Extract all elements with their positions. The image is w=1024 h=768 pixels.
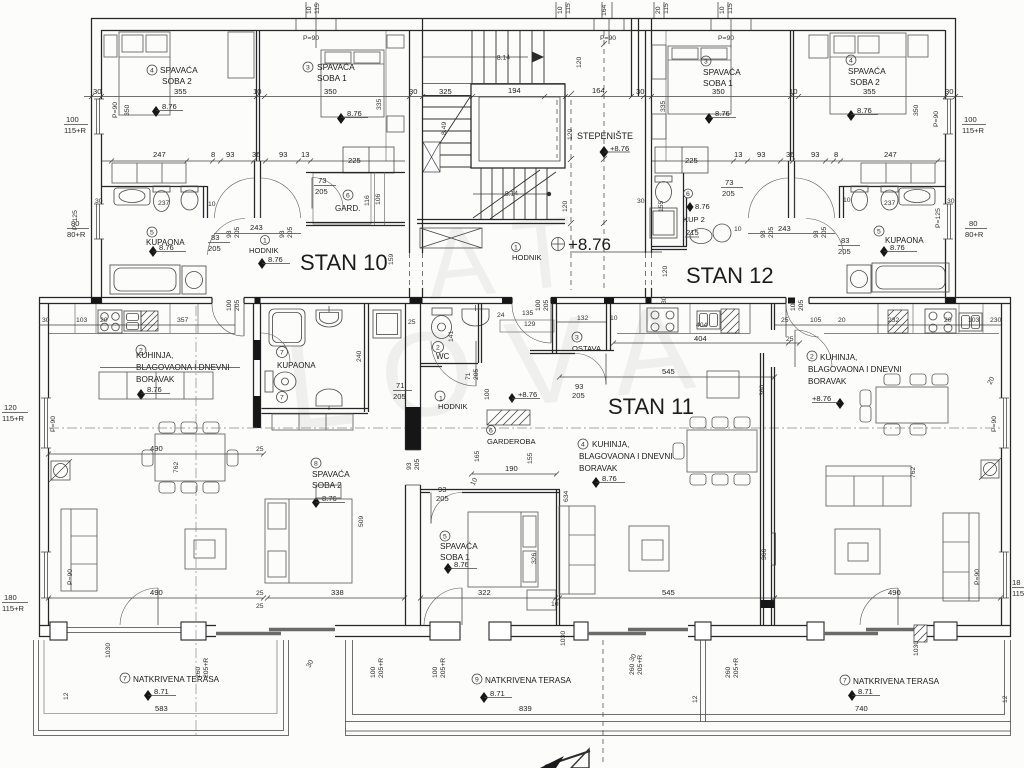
bathtub stan10 <box>110 265 180 294</box>
svg-text:100: 100 <box>790 299 797 311</box>
svg-text:10: 10 <box>253 87 261 96</box>
wall soba1 north <box>421 490 560 493</box>
svg-text:230: 230 <box>990 317 1002 324</box>
svg-text:STAN 12: STAN 12 <box>686 263 774 288</box>
svg-text:36: 36 <box>786 150 794 159</box>
soba1 label circle5 <box>440 531 450 541</box>
svg-text:8.76: 8.76 <box>695 202 710 211</box>
room label circle7 <box>277 347 288 358</box>
svg-text:4: 4 <box>849 58 853 65</box>
kitchen counter right <box>824 304 999 334</box>
svg-text:115: 115 <box>314 3 321 14</box>
level line left <box>148 695 176 697</box>
dim line 490 lower <box>46 596 266 601</box>
hatched pier right <box>914 625 927 642</box>
dim line 190 <box>469 472 559 477</box>
svg-text:83: 83 <box>841 236 849 245</box>
sofa s11 <box>559 506 595 594</box>
sink stan11 <box>697 311 720 329</box>
svg-text:STEPENIŠTE: STEPENIŠTE <box>577 131 633 141</box>
svg-text:P=125: P=125 <box>935 208 942 228</box>
svg-text:13: 13 <box>734 150 742 159</box>
door stan10-lower arc <box>212 304 244 336</box>
coffee table right <box>835 529 880 574</box>
svg-text:205: 205 <box>315 187 328 196</box>
sofa horizontal right <box>826 466 911 506</box>
svg-text:404: 404 <box>696 322 708 329</box>
svg-text:8.76: 8.76 <box>890 243 905 252</box>
wall left (outer line) <box>91 18 93 304</box>
glazing gray stan11 leaf2 <box>628 628 688 631</box>
svg-text:20: 20 <box>100 317 108 324</box>
dim stack x658 <box>655 3 670 14</box>
svg-text:P=90: P=90 <box>112 102 119 118</box>
svg-text:8.14: 8.14 <box>497 54 511 62</box>
glazing gray right apt leaf2 <box>866 628 914 631</box>
svg-text:P=90: P=90 <box>718 35 734 42</box>
svg-text:SOBA 1: SOBA 1 <box>317 73 347 83</box>
terrace divider <box>701 640 706 722</box>
svg-text:205+R: 205+R <box>440 658 447 678</box>
bidet kup2 <box>690 229 712 244</box>
svg-text:1030: 1030 <box>560 631 567 646</box>
svg-text:243: 243 <box>778 224 791 233</box>
svg-text:P=90: P=90 <box>600 35 616 42</box>
window left-2 <box>41 552 51 598</box>
elevator outer box <box>471 84 565 168</box>
soba1 door arc <box>431 493 462 524</box>
hatch connect east walls <box>761 600 774 608</box>
svg-text:10: 10 <box>719 6 726 14</box>
svg-text:225: 225 <box>685 156 698 165</box>
svg-text:100: 100 <box>370 666 377 678</box>
level marker kupaona12 <box>880 246 888 257</box>
level marker s11 <box>592 477 600 488</box>
svg-text:205: 205 <box>798 299 805 311</box>
level marker terrace left <box>144 690 152 701</box>
wardrobe soba2 right <box>228 32 254 78</box>
svg-text:205: 205 <box>287 226 294 238</box>
svg-text:P=90: P=90 <box>50 416 57 432</box>
svg-text:20: 20 <box>838 317 846 324</box>
level marker soba1 s11 <box>444 563 452 574</box>
svg-text:SPAVAĆA: SPAVAĆA <box>848 66 886 76</box>
svg-text:115+R: 115+R <box>2 414 25 423</box>
window label 180/115+R left <box>2 593 28 613</box>
svg-text:A T: A T <box>421 195 580 322</box>
svg-text:30: 30 <box>636 87 644 96</box>
svg-text:10: 10 <box>843 197 851 204</box>
wall between soba2 soba1 stan10 <box>257 31 260 161</box>
svg-text:1030: 1030 <box>913 641 920 656</box>
stove right <box>925 309 956 333</box>
svg-text:116: 116 <box>364 195 371 206</box>
wall stairwell west <box>410 18 423 298</box>
svg-text:232: 232 <box>888 317 900 324</box>
svg-text:6: 6 <box>346 193 350 200</box>
svg-text:8.76: 8.76 <box>322 494 337 503</box>
sideboard s11 <box>707 371 739 398</box>
level line right <box>812 402 840 404</box>
svg-text:8.76: 8.76 <box>147 385 162 394</box>
door stan12-lower arc <box>786 304 819 337</box>
svg-text:106: 106 <box>375 193 382 205</box>
rot dims 260/205+R mid-right <box>629 655 644 675</box>
wc washbasin <box>462 305 489 326</box>
wall kupaona7 south <box>262 409 369 414</box>
wall kupaona7 west <box>254 304 261 428</box>
svg-text:115: 115 <box>1012 589 1024 598</box>
svg-text:+8.76: +8.76 <box>568 235 611 254</box>
wall right (inner line) <box>945 30 947 304</box>
window mark top soba1 stan10 <box>296 18 336 48</box>
door right apt arc <box>795 330 832 367</box>
svg-text:P=90: P=90 <box>974 569 981 585</box>
svg-text:SPAVAĆA: SPAVAĆA <box>703 67 741 77</box>
wall black stub <box>406 407 421 450</box>
garderoba closet hatch <box>487 410 530 425</box>
gard door leaf <box>311 178 313 209</box>
section dash-dot line across lower block <box>49 427 1001 429</box>
svg-text:BORAVAK: BORAVAK <box>808 377 847 386</box>
svg-text:490: 490 <box>888 588 901 597</box>
bottom wall lines <box>39 626 1011 637</box>
left flight steps <box>423 96 471 168</box>
svg-text:5: 5 <box>443 534 447 541</box>
svg-text:583: 583 <box>155 704 168 713</box>
svg-text:93: 93 <box>226 230 233 238</box>
kupaona door arc <box>208 219 246 256</box>
armoire soba1 s11 <box>527 590 556 610</box>
pier boxes soba1 right <box>387 35 404 48</box>
svg-text:P=90: P=90 <box>933 111 940 127</box>
svg-text:509: 509 <box>358 515 365 527</box>
svg-text:HODNIK: HODNIK <box>249 246 279 255</box>
washbasin kupaona7 top <box>316 306 342 327</box>
level marker right <box>836 398 844 409</box>
wall stan11 east A <box>761 353 764 625</box>
door dims 73/205 stan12 <box>721 178 743 198</box>
glazing gray left apt leaf2 <box>269 628 335 631</box>
wall stairwell east short <box>632 18 639 96</box>
gard circle6 <box>343 190 353 200</box>
wc door arc <box>431 341 476 386</box>
chairs bottom right <box>884 424 926 435</box>
gard south wall <box>306 223 405 226</box>
lower flight walk line <box>473 193 547 195</box>
svg-text:6: 6 <box>686 191 690 198</box>
svg-text:247: 247 <box>884 150 897 159</box>
svg-text:93: 93 <box>438 485 446 494</box>
fixtures kupaona12: toilet <box>851 186 868 211</box>
basin kup2 <box>713 224 731 242</box>
dim line 490 upper <box>46 452 266 457</box>
counter dividers s11 <box>640 304 690 333</box>
bidet kupaona12 <box>881 186 898 210</box>
door arc hodnik-right stan12 <box>795 178 835 218</box>
door dash stairwell west <box>410 253 423 288</box>
svg-text:155: 155 <box>658 200 665 212</box>
shower kupaona7 <box>269 309 305 346</box>
svg-text:1: 1 <box>263 238 267 245</box>
left terrace label circle7 <box>120 673 130 683</box>
room label soba1: circle3 <box>303 62 313 72</box>
level line soba2 <box>156 110 183 112</box>
svg-text:SPAVAĆA: SPAVAĆA <box>160 65 198 75</box>
wall right (outer line) <box>955 18 957 304</box>
window left lower <box>94 204 104 239</box>
mid terrace label circle9 <box>472 674 482 684</box>
dim stack x722 <box>719 3 734 14</box>
svg-text:100: 100 <box>432 666 439 678</box>
thin wardrobe line soba1 <box>385 31 387 161</box>
kupaona12 circle5 <box>874 226 884 236</box>
rot dims 100/205+R pair A <box>370 658 385 678</box>
svg-text:115+R: 115+R <box>64 126 87 135</box>
wall kupaona east <box>204 186 208 218</box>
level marker stepeniste <box>600 146 609 158</box>
shaft hatch box <box>423 142 440 172</box>
window label 80/80+R right <box>965 219 987 239</box>
elevator inner box <box>479 97 560 161</box>
wall ostava south <box>530 351 614 354</box>
svg-text:NATKRIVENA TERASA: NATKRIVENA TERASA <box>133 675 220 684</box>
svg-text:10: 10 <box>208 201 216 208</box>
wall hall east upper <box>479 304 482 363</box>
svg-text:BLAGOVAONA I DNEVNI: BLAGOVAONA I DNEVNI <box>808 365 902 374</box>
window mark top corridor <box>594 18 624 44</box>
svg-text:190: 190 <box>505 464 518 473</box>
chairs bottom <box>159 482 219 493</box>
svg-text:93: 93 <box>813 230 820 238</box>
svg-text:3: 3 <box>704 59 708 66</box>
wall lower-left outer <box>39 297 41 637</box>
door arc kupaona12 <box>806 219 844 256</box>
big terrace outer lines <box>346 722 1011 736</box>
gard door arc <box>312 178 343 209</box>
svg-text:10: 10 <box>789 87 797 96</box>
terrace door left apt arc <box>120 588 158 625</box>
svg-text:205: 205 <box>208 244 221 253</box>
svg-text:P=125: P=125 <box>72 210 79 230</box>
svg-text:335: 335 <box>660 100 667 112</box>
upper flight arrowhead <box>532 52 544 63</box>
svg-text:180: 180 <box>4 593 17 602</box>
rot dims 93/205 west door <box>406 458 421 470</box>
ostava door dims <box>572 382 585 400</box>
svg-text:93: 93 <box>279 230 286 238</box>
room label soba2: circle4 <box>147 65 157 75</box>
rot dims 93/205 right door <box>813 226 828 238</box>
washing machine stan10 <box>182 266 206 294</box>
pier box 2 <box>387 116 404 132</box>
room label circle2 <box>136 345 146 355</box>
window left-1 <box>41 398 51 448</box>
door arc hodnik-left stan12 <box>749 178 789 218</box>
svg-text:80+R: 80+R <box>67 230 86 239</box>
north arrow <box>540 749 590 768</box>
dim line 545 lower <box>557 596 777 601</box>
svg-text:93: 93 <box>226 150 234 159</box>
bed soba1 <box>321 50 384 117</box>
wall ostava west <box>553 304 557 353</box>
svg-text:120: 120 <box>576 56 583 68</box>
kitchen dim line <box>39 324 235 326</box>
level marker terrace mid <box>480 692 488 703</box>
svg-text:205: 205 <box>722 189 735 198</box>
svg-text:355: 355 <box>863 87 876 96</box>
svg-text:KUP 2: KUP 2 <box>683 215 705 224</box>
svg-text:9: 9 <box>475 677 479 684</box>
watermark faint <box>279 195 700 456</box>
bidet kupaona <box>181 186 198 210</box>
kitchen counter <box>49 304 235 334</box>
wall lower-right inner <box>1001 304 1003 625</box>
svg-text:P=90: P=90 <box>67 569 74 585</box>
svg-text:8.14: 8.14 <box>505 190 519 198</box>
svg-text:12: 12 <box>692 695 699 703</box>
svg-text:350: 350 <box>124 104 131 116</box>
level marker soba1 <box>337 113 345 124</box>
sink right <box>959 313 982 331</box>
landing band lines <box>423 83 565 85</box>
svg-text:115+R: 115+R <box>962 126 985 135</box>
dim line 132 <box>557 321 607 323</box>
pier box upper <box>652 45 666 79</box>
chair left s11 <box>673 443 684 459</box>
chair right <box>227 450 238 466</box>
upper flight walk line with arrow <box>423 56 528 58</box>
svg-text:GARD.: GARD. <box>335 204 360 213</box>
wall lower-right outer <box>1010 297 1012 637</box>
ticks y161 left <box>109 159 313 164</box>
door arc hodnik-right <box>261 178 301 218</box>
svg-text:8.71: 8.71 <box>858 687 873 696</box>
drain symbol right <box>979 458 1001 480</box>
bed soba2 lower <box>265 499 352 583</box>
sofa vertical right <box>943 513 979 601</box>
wall under closet right <box>839 186 945 188</box>
wardrobe row soba2 <box>272 414 353 430</box>
svg-text:165: 165 <box>474 450 481 462</box>
svg-text:13: 13 <box>301 150 309 159</box>
svg-text:12: 12 <box>1002 695 1009 703</box>
level marker soba2 <box>847 110 855 121</box>
level line soba2 lower <box>316 502 345 504</box>
svg-text:SOBA 2: SOBA 2 <box>850 77 880 87</box>
svg-text:8.49: 8.49 <box>441 122 448 135</box>
svg-text:30: 30 <box>42 317 50 324</box>
bed soba1 s11 <box>468 512 538 587</box>
wc door leaf <box>475 341 477 386</box>
dining table s11 <box>687 430 757 472</box>
svg-text:P=90: P=90 <box>303 35 319 42</box>
wall soba1 east <box>557 490 560 625</box>
wall blk fills kupaona7 <box>254 340 261 428</box>
hodnik top line <box>214 233 301 235</box>
circle6 kup2 <box>684 189 693 198</box>
sink lower-left <box>124 311 141 331</box>
svg-text:357: 357 <box>177 317 189 324</box>
drainer hatch <box>141 311 158 331</box>
svg-text:36: 36 <box>252 150 260 159</box>
pier boxes bottom wall <box>50 622 957 640</box>
svg-text:8: 8 <box>834 150 838 159</box>
chairs top <box>159 422 219 433</box>
sink kupaona <box>114 188 150 205</box>
svg-text:STAN 10: STAN 10 <box>300 250 388 275</box>
chairs bottom s11 <box>690 474 750 485</box>
lower flight steps <box>481 168 547 219</box>
door dims 83/205 hodnik12 <box>838 236 860 256</box>
washing machine stan12 <box>847 265 871 293</box>
hodnik label circle1 <box>435 391 445 401</box>
text 215 <box>685 228 699 237</box>
svg-text:247: 247 <box>153 150 166 159</box>
svg-text:25: 25 <box>256 603 264 610</box>
svg-text:7: 7 <box>843 678 847 685</box>
svg-text:205: 205 <box>768 226 775 238</box>
ticks <box>89 94 958 99</box>
rot dims 93/205 soba1 door <box>0 0 1 1</box>
svg-text:205: 205 <box>436 494 449 503</box>
svg-text:10: 10 <box>734 226 742 233</box>
window label 80/80+R left lower <box>67 219 89 239</box>
svg-text:BLAGOVAONA I DNEVNI: BLAGOVAONA I DNEVNI <box>579 452 673 461</box>
nightstand soba2 lower <box>316 485 341 498</box>
toilet kupaona <box>153 186 170 212</box>
bed soba1 stan12 <box>668 46 731 114</box>
svg-text:80+R: 80+R <box>965 230 984 239</box>
closet row right <box>861 163 935 183</box>
dim line 490 right <box>772 596 1003 601</box>
svg-text:205: 205 <box>234 226 241 238</box>
left terrace mid <box>39 640 284 731</box>
coffee table s11 <box>629 526 669 571</box>
nightstand soba2 <box>104 35 117 57</box>
svg-text:BORAVAK: BORAVAK <box>579 464 618 473</box>
door corridor-lower arc <box>512 304 551 343</box>
ostava door arc <box>575 354 606 385</box>
kitchen counter stan11 <box>617 304 750 334</box>
svg-text:205: 205 <box>414 458 421 470</box>
svg-text:25: 25 <box>256 590 264 597</box>
svg-text:SOBA 2: SOBA 2 <box>162 76 192 86</box>
svg-text:KUHINJA,: KUHINJA, <box>136 351 173 360</box>
label circle4 s11 <box>578 439 588 449</box>
door stan10-lower: rotated dims 100/205 <box>226 299 241 311</box>
svg-text:100: 100 <box>964 115 977 124</box>
svg-text:93: 93 <box>760 230 767 238</box>
svg-text:8.76: 8.76 <box>602 474 617 483</box>
svg-text:237: 237 <box>884 200 896 207</box>
bed soba2 stan12 <box>830 33 906 114</box>
hodnik circle1 <box>261 236 270 245</box>
svg-text:5: 5 <box>150 230 154 237</box>
svg-text:GARDEROBA: GARDEROBA <box>487 437 536 446</box>
toilet kup2 <box>655 176 672 203</box>
svg-text:30: 30 <box>95 198 103 205</box>
wall under closet <box>101 186 207 188</box>
kupaona7 door arc <box>261 333 290 362</box>
window label 180/115+R right (clipped) <box>1012 578 1024 598</box>
wall left (inner line) <box>101 30 103 304</box>
svg-text:205+R: 205+R <box>733 658 740 678</box>
washing machine niche <box>373 310 401 338</box>
svg-text:155: 155 <box>527 452 534 464</box>
svg-text:93: 93 <box>757 150 765 159</box>
svg-text:93: 93 <box>811 150 819 159</box>
